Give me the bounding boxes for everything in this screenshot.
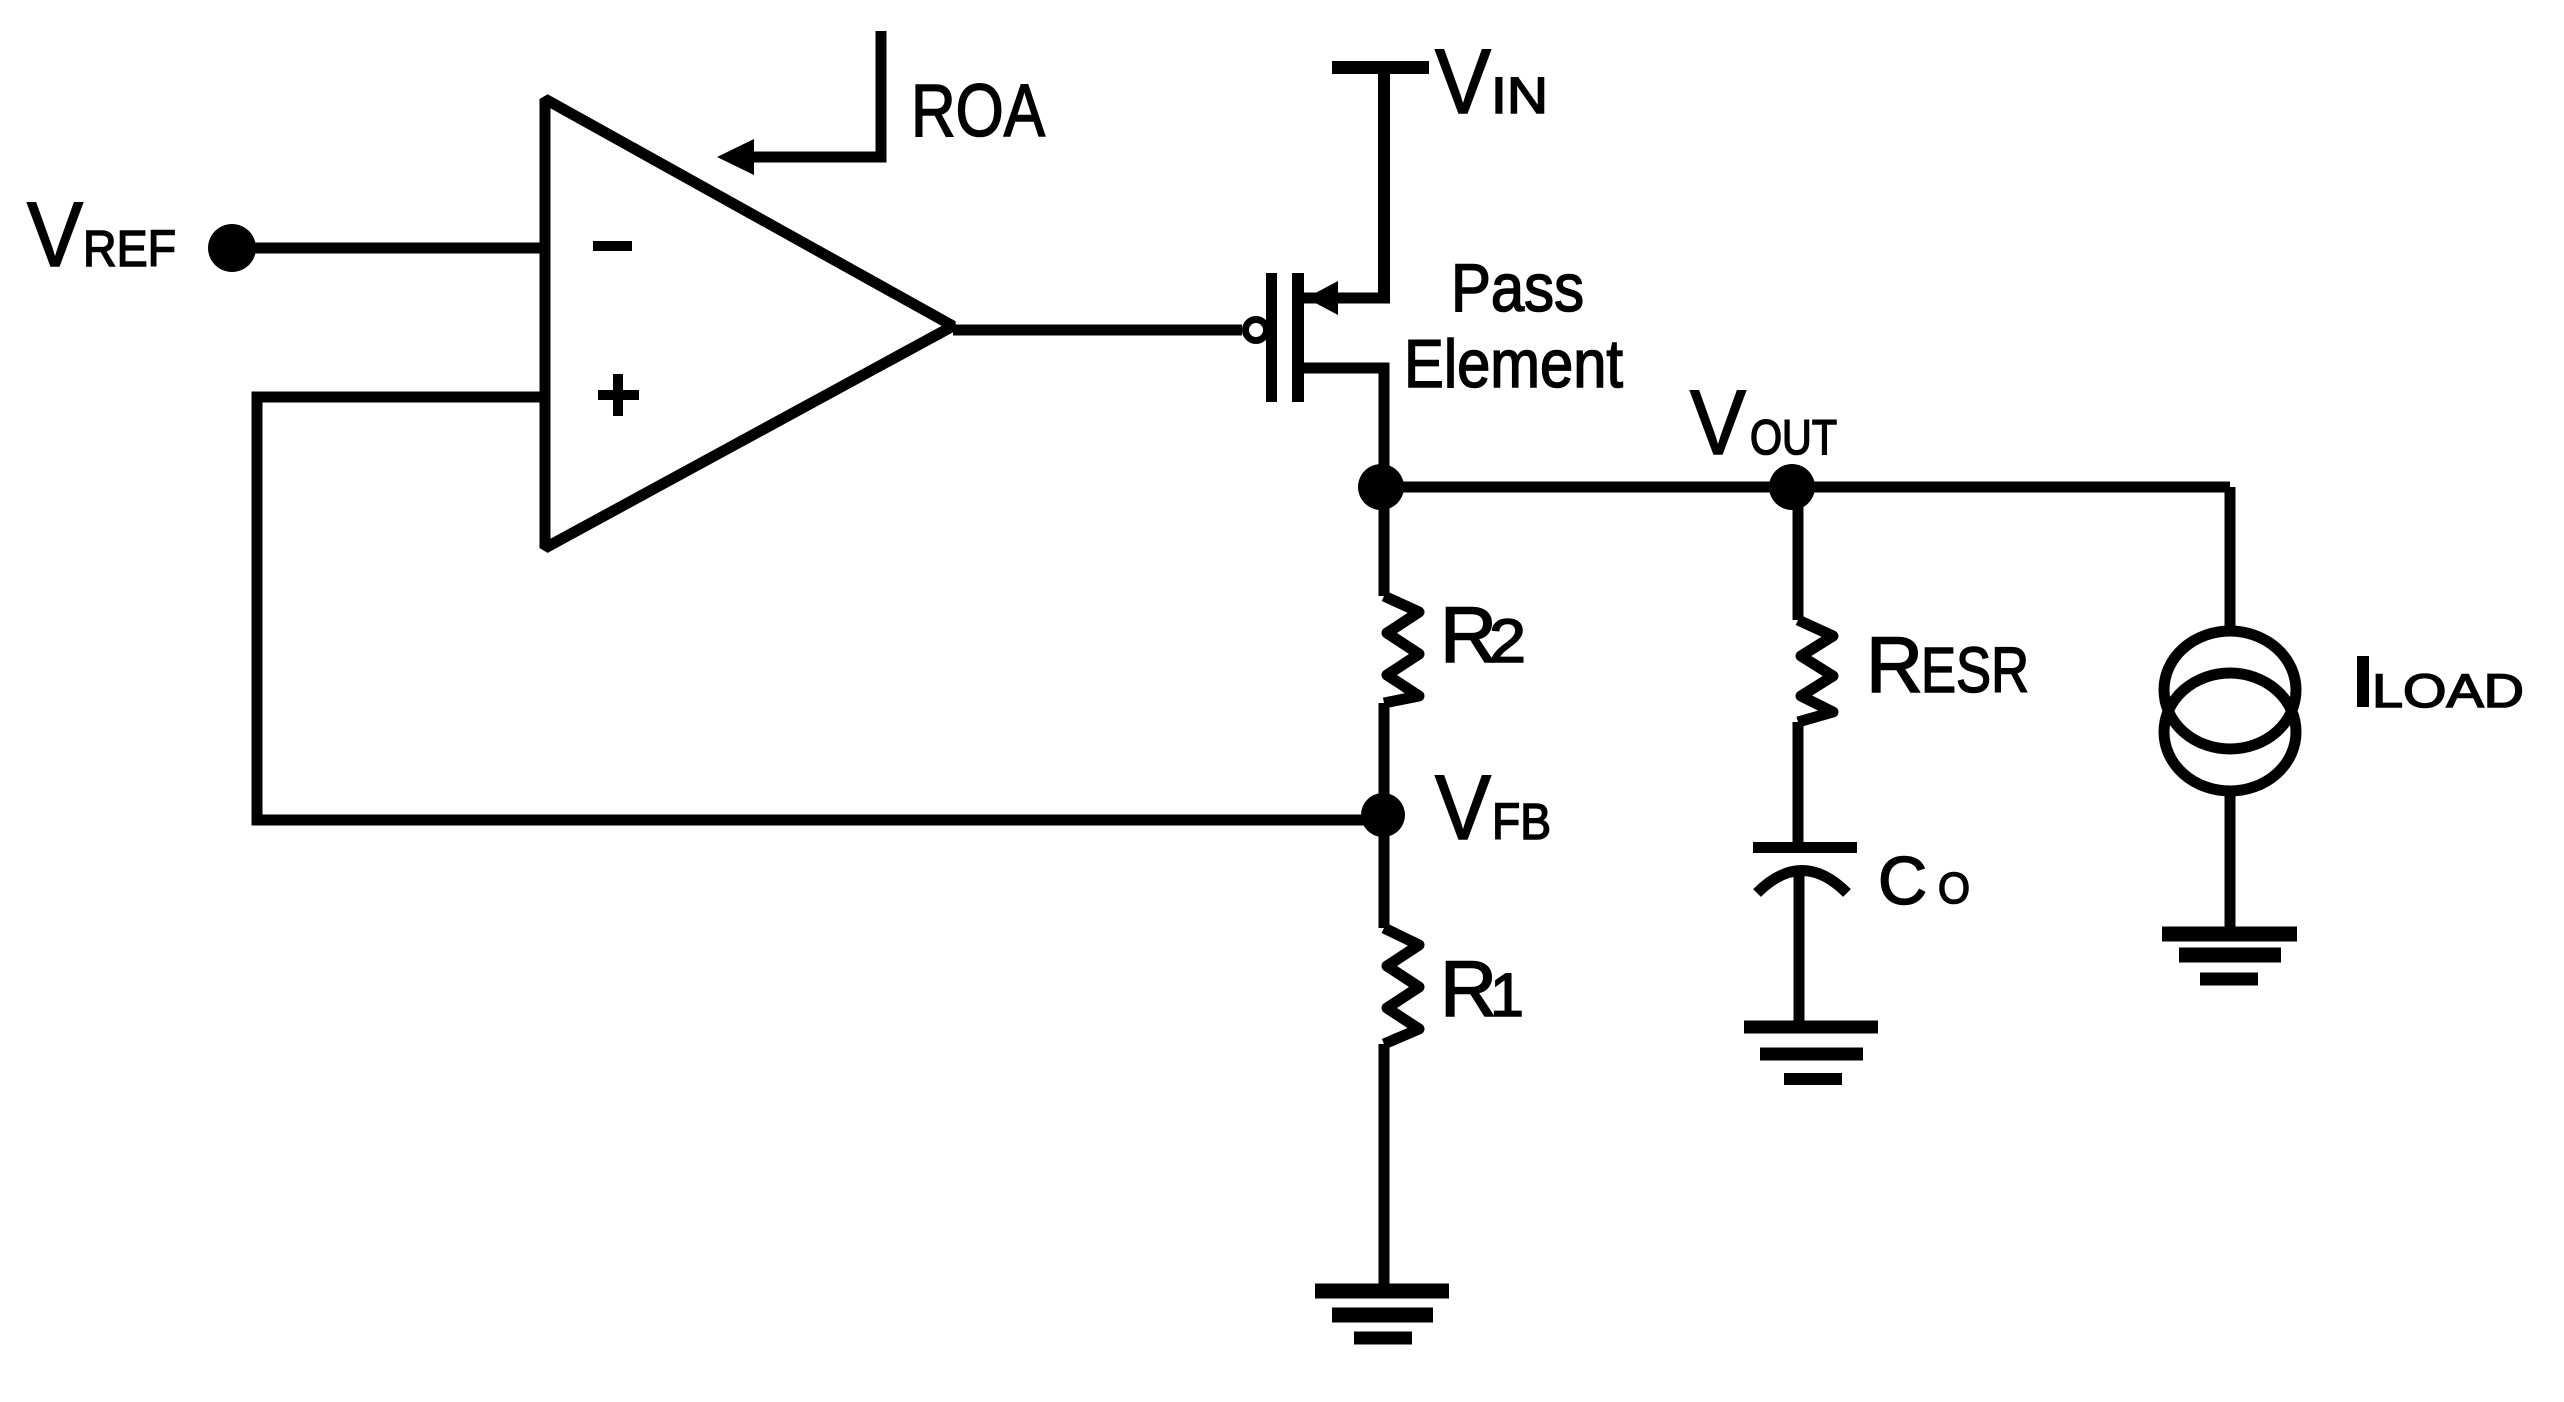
- channel bar: [1292, 273, 1304, 402]
- svg-text:IN: IN: [1491, 67, 1548, 124]
- ground (below R1): [1315, 1291, 1449, 1338]
- svg-text:OUT: OUT: [1750, 411, 1837, 465]
- svg-text:R: R: [1866, 620, 1923, 709]
- drain lead: [1304, 368, 1384, 487]
- svg-text:Element: Element: [1404, 326, 1623, 402]
- node VOUT junction dot: [1769, 464, 1815, 510]
- svg-text:FB: FB: [1492, 793, 1551, 850]
- op-amp minus input symbol: [593, 241, 632, 251]
- svg-text:V: V: [1435, 31, 1491, 133]
- svg-text:R: R: [1440, 944, 1497, 1033]
- wire VOUT to RESR: [1793, 487, 1804, 620]
- wire ILOAD to ground: [2225, 791, 2236, 927]
- svg-text:C: C: [1878, 843, 1927, 919]
- resistor R1: [1384, 928, 1419, 1044]
- wire VOUT rail: [1381, 482, 2230, 493]
- svg-text:1: 1: [1490, 961, 1524, 1029]
- ROA pointer wire: [749, 31, 881, 157]
- svg-text:ESR: ESR: [1921, 634, 2029, 706]
- svg-text:REF: REF: [83, 220, 176, 277]
- ROA pointer arrowhead: [717, 139, 754, 175]
- op-amp U1 (error amplifier): [545, 99, 953, 548]
- node VFB junction dot: [1361, 793, 1405, 837]
- svg-text:Pass: Pass: [1451, 250, 1584, 326]
- source lead: [1304, 293, 1390, 304]
- transistor Q1 pass element (PMOS): [1246, 273, 1391, 487]
- label ILOAD: [2357, 656, 2369, 707]
- ground (below Co): [1744, 1027, 1878, 1079]
- wire VOUT to R2: [1379, 487, 1390, 596]
- svg-text:2: 2: [1489, 607, 1526, 675]
- wire VFB to R1: [1379, 815, 1390, 928]
- wire RESR to Co: [1793, 722, 1804, 843]
- wire op-amp output to pass gate: [953, 325, 1242, 336]
- svg-text:O: O: [1938, 864, 1970, 913]
- wire VOUT down to ILOAD: [2225, 487, 2236, 628]
- current source ILOAD: [2164, 631, 2296, 791]
- gate bar: [1266, 273, 1277, 402]
- op-amp plus input symbol: [598, 374, 639, 416]
- svg-text:ROA: ROA: [911, 69, 1046, 152]
- svg-text:LOAD: LOAD: [2372, 664, 2524, 717]
- node junction dot (drain/R2): [1358, 464, 1404, 510]
- svg-text:V: V: [27, 184, 83, 286]
- svg-text:V: V: [1690, 372, 1746, 474]
- resistor R2: [1384, 596, 1419, 703]
- wire R2 to VFB: [1379, 703, 1390, 815]
- wire feedback: VFB node to op-amp plus input: [257, 397, 1383, 820]
- source arrow: [1306, 281, 1338, 315]
- ground (below ILOAD): [2162, 934, 2297, 979]
- wire VREF to op-amp minus input: [232, 243, 545, 254]
- gate bubble: [1246, 320, 1267, 341]
- resistor RESR: [1798, 620, 1833, 722]
- wire R1 to ground: [1379, 1044, 1390, 1291]
- node VREF terminal dot: [208, 224, 256, 272]
- capacitor Co: [1753, 842, 1857, 1022]
- VIN power symbol: [1332, 61, 1429, 298]
- svg-text:V: V: [1435, 757, 1491, 859]
